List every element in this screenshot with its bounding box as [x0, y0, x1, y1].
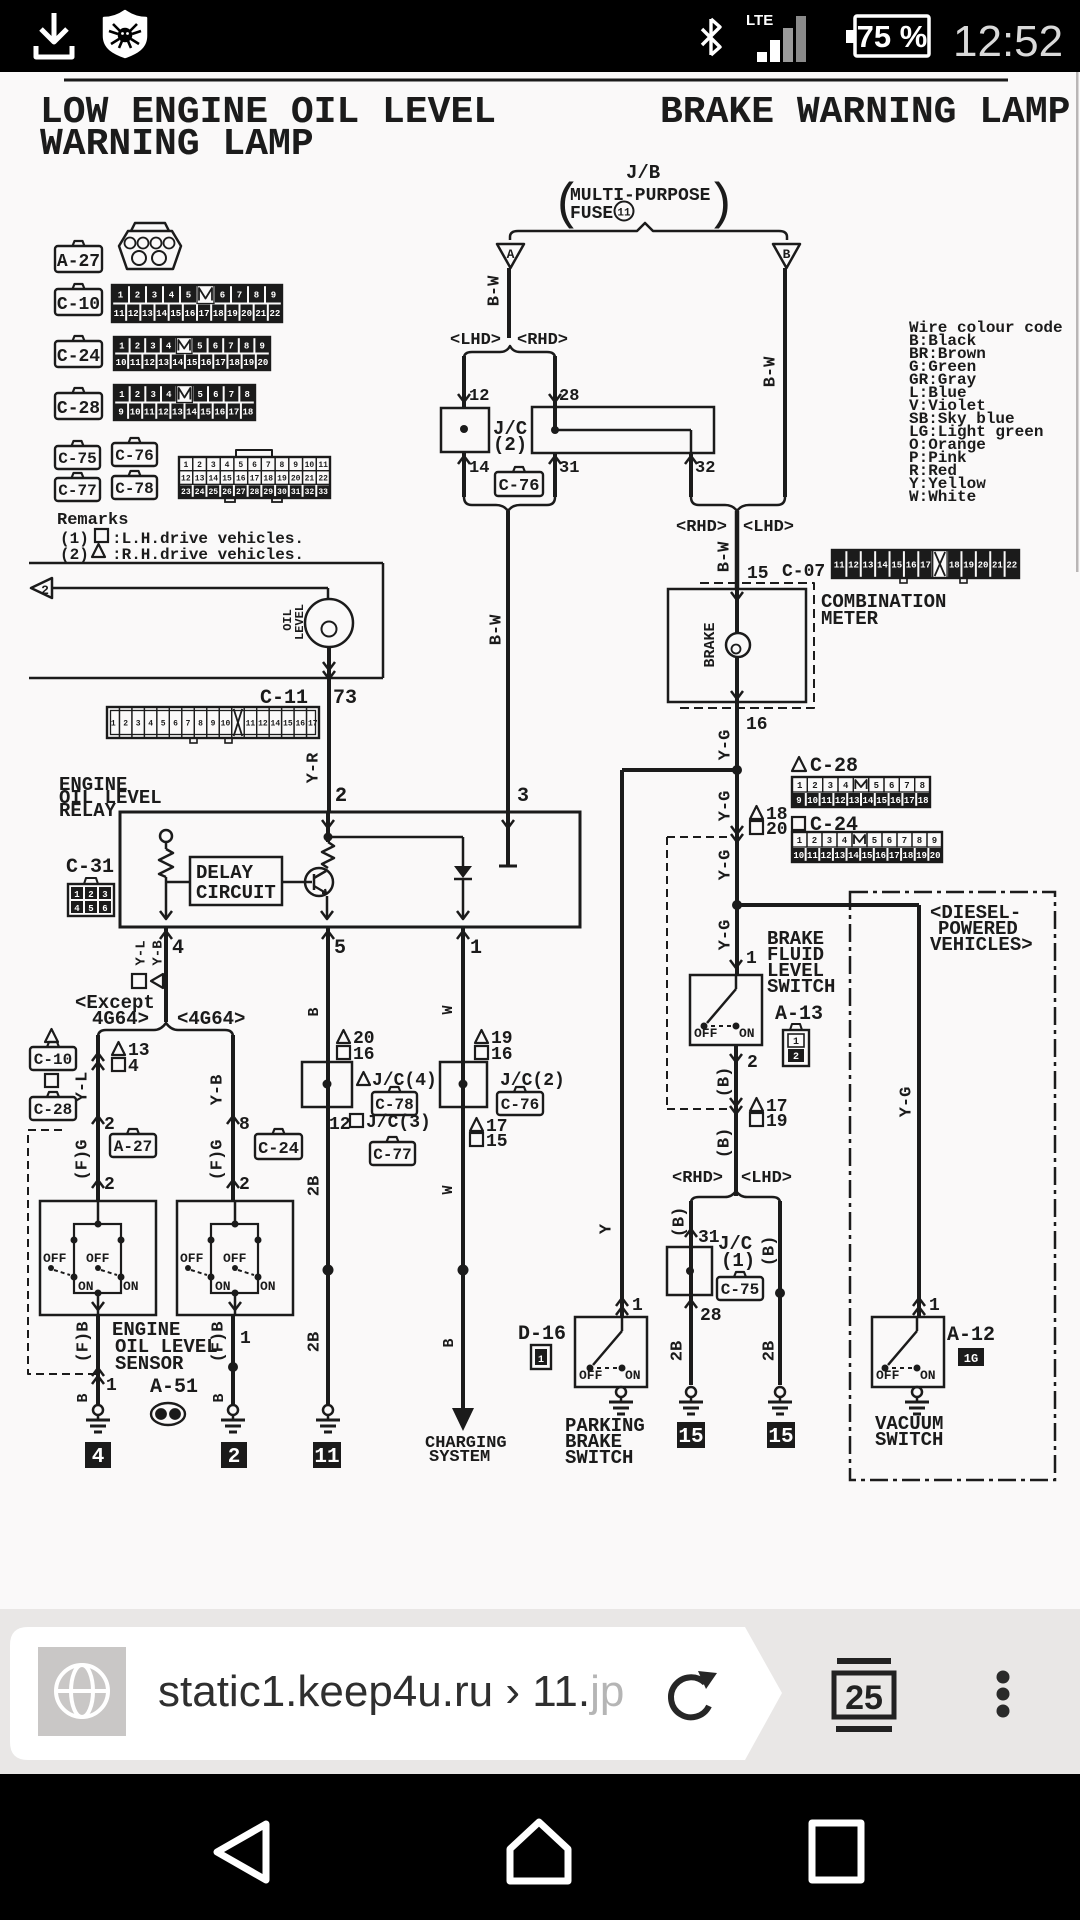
svg-text:(2): (2) [493, 434, 527, 456]
svg-text:17: 17 [215, 358, 226, 368]
svg-text:J/C(2): J/C(2) [500, 1071, 565, 1091]
svg-text:2: 2 [88, 890, 93, 900]
svg-text:11: 11 [807, 851, 818, 861]
svg-text:C-75: C-75 [58, 450, 96, 468]
svg-text:11: 11 [834, 560, 845, 570]
svg-text:1: 1 [797, 836, 803, 846]
svg-text:6: 6 [887, 836, 892, 846]
svg-text:16: 16 [353, 1045, 375, 1065]
svg-text:14: 14 [848, 851, 859, 861]
svg-text:2: 2 [812, 781, 817, 791]
svg-text:5: 5 [161, 720, 166, 729]
svg-text:14: 14 [209, 475, 219, 484]
svg-text:15: 15 [200, 408, 211, 418]
svg-text:13: 13 [834, 851, 845, 861]
svg-text:19: 19 [227, 309, 238, 319]
svg-text:22: 22 [1006, 560, 1017, 570]
svg-text:J/C(4): J/C(4) [372, 1071, 437, 1091]
svg-text:W:White: W:White [909, 488, 976, 506]
svg-text:8: 8 [244, 390, 249, 400]
svg-text:12: 12 [835, 796, 846, 806]
svg-text:15: 15 [876, 796, 887, 806]
svg-text:Y-R: Y-R [304, 752, 323, 783]
svg-text:10: 10 [116, 358, 127, 368]
svg-text:7: 7 [266, 461, 271, 470]
svg-text::R.H.drive vehicles.: :R.H.drive vehicles. [112, 546, 304, 564]
svg-text:24: 24 [195, 488, 205, 497]
svg-text:ON: ON [260, 1279, 276, 1294]
svg-text:SYSTEM: SYSTEM [429, 1448, 490, 1467]
svg-text:2: 2 [123, 720, 128, 729]
svg-text:20: 20 [258, 358, 269, 368]
svg-text:2B: 2B [760, 1341, 779, 1361]
svg-text:ON: ON [625, 1368, 641, 1383]
svg-text:15: 15 [486, 1132, 508, 1152]
svg-text:1: 1 [470, 937, 482, 960]
svg-text:13: 13 [158, 358, 169, 368]
svg-text:13: 13 [849, 796, 860, 806]
svg-text:3: 3 [211, 461, 216, 470]
svg-text:7: 7 [902, 836, 907, 846]
svg-text:4: 4 [128, 1057, 139, 1077]
svg-text:B: B [306, 1007, 323, 1016]
svg-text:6: 6 [252, 461, 257, 470]
svg-text:C-78: C-78 [115, 480, 153, 498]
svg-text:7: 7 [237, 291, 242, 301]
svg-text:10: 10 [305, 461, 315, 470]
svg-text:28: 28 [559, 387, 579, 406]
svg-text:1: 1 [74, 890, 80, 900]
svg-text:10: 10 [807, 796, 818, 806]
svg-text:22: 22 [270, 309, 281, 319]
svg-text:16: 16 [875, 851, 886, 861]
svg-text:1: 1 [797, 781, 803, 791]
svg-text:20: 20 [241, 309, 252, 319]
svg-text:C-76: C-76 [499, 477, 540, 496]
svg-text:3: 3 [828, 781, 833, 791]
svg-text:5: 5 [186, 291, 191, 301]
svg-text:<LHD>: <LHD> [450, 331, 501, 350]
svg-text:9: 9 [211, 720, 216, 729]
svg-text:Y-G: Y-G [716, 791, 735, 822]
svg-text:2B: 2B [305, 1332, 324, 1352]
svg-text:C-77: C-77 [373, 1146, 411, 1164]
svg-text:1: 1 [111, 720, 116, 729]
svg-text:3: 3 [136, 720, 141, 729]
svg-text:15: 15 [678, 1426, 703, 1449]
svg-text:15: 15 [283, 720, 293, 729]
svg-text:6: 6 [213, 390, 218, 400]
svg-text:8: 8 [254, 291, 259, 301]
svg-text:B: B [441, 1338, 458, 1347]
svg-text:J/C(3): J/C(3) [366, 1113, 431, 1133]
svg-text:3: 3 [827, 836, 832, 846]
svg-text:4: 4 [166, 342, 172, 352]
svg-text:B-W: B-W [485, 275, 504, 306]
svg-text:2: 2 [135, 390, 140, 400]
svg-text:SENSOR: SENSOR [115, 1353, 184, 1375]
svg-text:SWITCH: SWITCH [767, 976, 835, 998]
svg-text:21: 21 [305, 475, 315, 484]
svg-text:A-27: A-27 [114, 1138, 152, 1156]
svg-text:18: 18 [918, 796, 929, 806]
svg-text:A-27: A-27 [57, 252, 100, 272]
svg-text:17: 17 [889, 851, 900, 861]
svg-text:5: 5 [88, 904, 93, 914]
svg-text:8: 8 [239, 1115, 250, 1135]
svg-text:14: 14 [172, 358, 183, 368]
svg-text:Y-L: Y-L [73, 1072, 92, 1103]
svg-text:): ) [706, 177, 736, 234]
svg-text:Y-B: Y-B [151, 940, 167, 966]
svg-text:16: 16 [214, 408, 225, 418]
svg-text:2: 2 [239, 1175, 250, 1195]
svg-text:(2): (2) [60, 546, 89, 564]
svg-text:ON: ON [78, 1279, 94, 1294]
svg-text:1: 1 [106, 1376, 117, 1396]
svg-text:12:52: 12:52 [953, 17, 1063, 66]
svg-text:5: 5 [197, 342, 202, 352]
svg-text:1: 1 [119, 342, 125, 352]
svg-text:CIRCUIT: CIRCUIT [196, 882, 276, 904]
svg-text:<LHD>: <LHD> [743, 518, 794, 537]
svg-text:15: 15 [187, 358, 198, 368]
svg-text:75 %: 75 % [857, 19, 928, 54]
svg-text:31: 31 [698, 1228, 720, 1248]
svg-text:ON: ON [123, 1279, 139, 1294]
svg-text:3: 3 [152, 291, 157, 301]
svg-text:4: 4 [74, 904, 80, 914]
svg-text:20: 20 [766, 820, 788, 840]
svg-text:9: 9 [932, 836, 937, 846]
svg-text:7: 7 [904, 781, 909, 791]
svg-text:8: 8 [244, 342, 249, 352]
svg-text:C-75: C-75 [721, 1281, 759, 1299]
svg-text:BRAKE WARNING LAMP: BRAKE WARNING LAMP [660, 91, 1070, 134]
svg-text:C-24: C-24 [810, 814, 858, 837]
svg-text:20: 20 [978, 560, 989, 570]
svg-text:15: 15 [747, 564, 769, 584]
svg-text:ON: ON [215, 1279, 231, 1294]
svg-text:12: 12 [821, 851, 832, 861]
svg-text:18: 18 [949, 560, 960, 570]
svg-text:16: 16 [491, 1045, 513, 1065]
svg-text:RELAY: RELAY [59, 800, 117, 822]
svg-text:12: 12 [128, 309, 139, 319]
svg-text:6: 6 [102, 904, 107, 914]
svg-text:C-24: C-24 [258, 1140, 299, 1159]
svg-text:19: 19 [963, 560, 974, 570]
svg-text:ON: ON [920, 1368, 936, 1383]
svg-text:6: 6 [213, 342, 218, 352]
svg-text:DELAY: DELAY [196, 862, 254, 884]
svg-text:B: B [783, 247, 791, 262]
svg-text:16: 16 [906, 560, 917, 570]
svg-text:15: 15 [170, 309, 181, 319]
svg-text:20: 20 [930, 851, 941, 861]
svg-text:C-76: C-76 [501, 1096, 539, 1114]
svg-text:(B): (B) [760, 1236, 779, 1267]
svg-text:Y-G: Y-G [716, 850, 735, 881]
svg-text:11: 11 [114, 309, 125, 319]
svg-text:C-10: C-10 [57, 295, 100, 315]
svg-text:2: 2 [793, 1052, 799, 1063]
svg-text:2B: 2B [668, 1341, 687, 1361]
svg-text:17: 17 [920, 560, 931, 570]
svg-text:17: 17 [199, 309, 210, 319]
svg-text:(F)B: (F)B [74, 1322, 93, 1363]
svg-text:5: 5 [238, 461, 243, 470]
svg-text:B: B [211, 1393, 228, 1402]
svg-text:15: 15 [768, 1426, 793, 1449]
svg-text:28: 28 [700, 1306, 722, 1326]
svg-text:(B): (B) [670, 1207, 689, 1238]
svg-text:C-28: C-28 [810, 755, 858, 778]
svg-text:2: 2 [41, 583, 49, 598]
svg-text:13: 13 [863, 560, 874, 570]
svg-text:19: 19 [916, 851, 927, 861]
svg-text:25: 25 [845, 1679, 883, 1717]
svg-text:18: 18 [903, 851, 914, 861]
svg-text:3: 3 [150, 342, 155, 352]
svg-text:(B): (B) [715, 1128, 734, 1159]
svg-text:1: 1 [793, 1037, 799, 1048]
svg-text:C-28: C-28 [34, 1101, 72, 1119]
svg-text:13: 13 [172, 408, 183, 418]
svg-text:<RHD>: <RHD> [517, 331, 568, 350]
svg-text:4: 4 [148, 720, 153, 729]
svg-text:OFF: OFF [86, 1251, 110, 1266]
svg-text:25: 25 [209, 488, 219, 497]
svg-text:SWITCH: SWITCH [565, 1447, 633, 1469]
svg-text:13: 13 [142, 309, 153, 319]
svg-text:2: 2 [104, 1175, 115, 1195]
svg-text:1: 1 [929, 1296, 940, 1316]
svg-text:1: 1 [119, 390, 125, 400]
svg-text:2: 2 [197, 461, 202, 470]
svg-text:8: 8 [280, 461, 285, 470]
svg-text:10: 10 [793, 851, 804, 861]
svg-text:16: 16 [890, 796, 901, 806]
svg-text:1: 1 [746, 949, 757, 969]
svg-text:A: A [507, 247, 515, 262]
svg-text:C-77: C-77 [58, 482, 96, 500]
svg-text:OFF: OFF [180, 1251, 204, 1266]
svg-text:73: 73 [333, 687, 357, 710]
svg-text:OFF: OFF [876, 1368, 900, 1383]
svg-text:16: 16 [185, 309, 196, 319]
svg-text:Y: Y [597, 1223, 616, 1234]
svg-text:11: 11 [314, 1446, 339, 1469]
svg-text:C-78: C-78 [375, 1096, 413, 1114]
svg-text:OFF: OFF [223, 1251, 247, 1266]
svg-text:(1): (1) [721, 1250, 755, 1272]
svg-text:B: B [75, 1393, 92, 1402]
svg-text:<RHD>: <RHD> [676, 518, 727, 537]
svg-text:5: 5 [197, 390, 202, 400]
svg-text:11: 11 [144, 408, 155, 418]
svg-text:10: 10 [130, 408, 141, 418]
svg-text:29: 29 [263, 488, 273, 497]
svg-text:4: 4 [842, 836, 848, 846]
svg-text:12: 12 [144, 358, 155, 368]
svg-text:19: 19 [766, 1112, 788, 1132]
svg-text:A-13: A-13 [775, 1003, 823, 1026]
svg-text:5: 5 [874, 781, 879, 791]
svg-text:9: 9 [259, 342, 264, 352]
svg-text:J/B: J/B [626, 162, 660, 184]
svg-text:VEHICLES>: VEHICLES> [930, 934, 1033, 956]
svg-text:12: 12 [469, 387, 489, 406]
svg-text:15: 15 [891, 560, 902, 570]
svg-text:8: 8 [920, 781, 925, 791]
svg-text:2: 2 [135, 291, 140, 301]
svg-text:4: 4 [172, 937, 184, 960]
svg-text:Y-B: Y-B [208, 1075, 227, 1106]
svg-text:7: 7 [229, 390, 234, 400]
svg-text:18: 18 [263, 475, 273, 484]
svg-text:23: 23 [181, 488, 191, 497]
svg-text:1: 1 [538, 1355, 544, 1366]
svg-text:20: 20 [291, 475, 301, 484]
svg-text:33: 33 [318, 488, 328, 497]
svg-text:17: 17 [228, 408, 239, 418]
svg-text:9: 9 [271, 291, 276, 301]
svg-text:A-51: A-51 [150, 1376, 198, 1399]
svg-text:1: 1 [240, 1329, 251, 1349]
svg-text:C-24: C-24 [57, 347, 100, 367]
svg-text:19: 19 [277, 475, 287, 484]
svg-text:1: 1 [632, 1296, 643, 1316]
svg-text:4: 4 [843, 781, 849, 791]
svg-text:Y-L: Y-L [134, 940, 150, 965]
svg-text:OFF: OFF [43, 1251, 67, 1266]
svg-text:14: 14 [469, 459, 489, 478]
svg-text:13: 13 [195, 475, 205, 484]
svg-text:2B: 2B [305, 1176, 324, 1196]
svg-text:B-W: B-W [715, 541, 734, 572]
svg-text:static1.keep4u.ru › 11.jp: static1.keep4u.ru › 11.jp [158, 1667, 624, 1716]
svg-text:14: 14 [156, 309, 167, 319]
svg-text:C-10: C-10 [34, 1051, 72, 1069]
svg-text:(F)G: (F)G [73, 1140, 92, 1181]
svg-text:17: 17 [904, 796, 915, 806]
svg-text:31: 31 [559, 459, 579, 478]
svg-text:22: 22 [318, 475, 328, 484]
svg-text:11: 11 [130, 358, 141, 368]
svg-text:4: 4 [169, 291, 175, 301]
svg-text:C-07: C-07 [782, 562, 825, 582]
svg-text:12: 12 [329, 1115, 351, 1135]
svg-text:Remarks: Remarks [57, 511, 128, 530]
svg-text:MULTI-PURPOSE: MULTI-PURPOSE [570, 186, 711, 206]
svg-text:21: 21 [992, 560, 1003, 570]
svg-text:18: 18 [213, 309, 224, 319]
svg-text:15: 15 [862, 851, 873, 861]
svg-text:3: 3 [102, 890, 107, 900]
svg-text:OFF: OFF [579, 1368, 603, 1383]
svg-text:SWITCH: SWITCH [875, 1429, 943, 1451]
svg-text:Y-G: Y-G [716, 730, 735, 761]
svg-text:4: 4 [92, 1446, 105, 1469]
svg-text:<RHD>: <RHD> [672, 1169, 723, 1188]
svg-text:C-28: C-28 [57, 399, 100, 419]
svg-text:C-31: C-31 [66, 856, 114, 879]
svg-text:17: 17 [250, 475, 260, 484]
svg-text:2: 2 [135, 342, 140, 352]
svg-text:21: 21 [255, 309, 266, 319]
svg-text:1: 1 [183, 461, 188, 470]
svg-text:12: 12 [158, 408, 169, 418]
svg-text:14: 14 [271, 720, 281, 729]
svg-text:OFF: OFF [694, 1026, 718, 1041]
svg-text:W: W [440, 1185, 457, 1194]
svg-text:27: 27 [236, 488, 246, 497]
svg-text:5: 5 [334, 937, 346, 960]
svg-text:A-12: A-12 [947, 1324, 995, 1347]
svg-text:19: 19 [243, 358, 254, 368]
svg-text:32: 32 [695, 459, 715, 478]
svg-text:11: 11 [246, 720, 256, 729]
svg-text:Y-G: Y-G [716, 920, 735, 951]
svg-text:18: 18 [229, 358, 240, 368]
svg-text:2: 2 [812, 836, 817, 846]
svg-text:Y-G: Y-G [897, 1087, 916, 1118]
svg-text:16: 16 [295, 720, 305, 729]
svg-text:18: 18 [243, 408, 254, 418]
svg-text:2: 2 [228, 1446, 241, 1469]
svg-text:17: 17 [308, 720, 318, 729]
svg-text:32: 32 [305, 488, 315, 497]
svg-text:FUSE: FUSE [570, 204, 613, 224]
svg-text:11: 11 [821, 796, 832, 806]
svg-text:1: 1 [118, 291, 124, 301]
svg-text:BRAKE: BRAKE [702, 622, 719, 667]
svg-text:28: 28 [250, 488, 260, 497]
svg-text:W: W [440, 1005, 457, 1014]
svg-text:(F)G: (F)G [208, 1140, 227, 1181]
svg-text:11: 11 [617, 208, 631, 220]
svg-text:7: 7 [186, 720, 191, 729]
svg-text:31: 31 [291, 488, 301, 497]
svg-text:9: 9 [796, 796, 801, 806]
svg-text:9: 9 [293, 461, 298, 470]
svg-text:LTE: LTE [746, 12, 773, 29]
svg-text:30: 30 [277, 488, 287, 497]
svg-text:16: 16 [201, 358, 212, 368]
svg-text:14: 14 [877, 560, 888, 570]
svg-text:4: 4 [225, 461, 230, 470]
svg-text:B-W: B-W [487, 614, 506, 645]
svg-text:12: 12 [848, 560, 859, 570]
svg-text:3: 3 [150, 390, 155, 400]
svg-text:6: 6 [889, 781, 894, 791]
svg-text:12: 12 [181, 475, 191, 484]
svg-text:16: 16 [236, 475, 246, 484]
svg-text:14: 14 [862, 796, 873, 806]
svg-text:LEVEL: LEVEL [293, 604, 307, 640]
svg-text:4: 4 [166, 390, 172, 400]
svg-text:12: 12 [258, 720, 268, 729]
svg-text:8: 8 [917, 836, 922, 846]
svg-text:9: 9 [118, 408, 123, 418]
svg-text:7: 7 [228, 342, 233, 352]
svg-text:D-16: D-16 [518, 1323, 566, 1346]
svg-text:14: 14 [186, 408, 197, 418]
svg-text:2: 2 [104, 1115, 115, 1135]
svg-text:11: 11 [318, 461, 328, 470]
svg-text:<LHD>: <LHD> [741, 1169, 792, 1188]
